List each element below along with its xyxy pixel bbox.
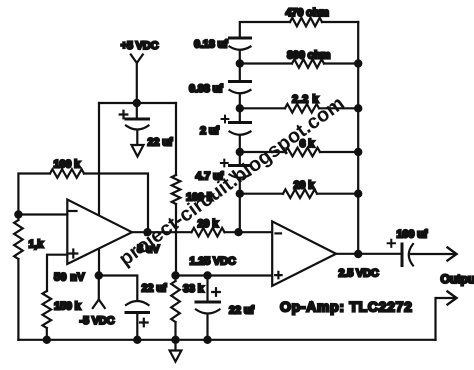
wire bus return to output with arrow	[436, 298, 456, 340]
wire ladder row3	[240, 107, 358, 109]
svg-text:100 k: 100 k	[54, 159, 82, 171]
resistor 800 ohm	[287, 50, 331, 68]
wire +5V to R bias	[175, 103, 177, 175]
svg-text:100 k: 100 k	[186, 192, 214, 204]
node U2 output junction	[354, 250, 362, 258]
wire U1 non-inverting input	[47, 255, 67, 291]
svg-text:50 nV: 50 nV	[54, 272, 85, 284]
resistor 20 k (series)	[192, 218, 225, 237]
node V- rail junction	[95, 271, 103, 279]
op-amp U1	[67, 200, 132, 265]
node U2 inverting junction	[234, 228, 242, 236]
resistor 20 k (ladder)	[283, 180, 317, 199]
svg-text:33 k: 33 k	[183, 283, 205, 295]
svg-text:2.2 k: 2.2 k	[292, 94, 319, 106]
capacitor 4.7 uf	[196, 152, 251, 194]
node ladder right row4	[354, 148, 362, 156]
wire bias rail to 1.25V node	[175, 204, 177, 276]
resistor 100 k (bias upper)	[172, 175, 214, 204]
svg-text:Op-Amp: TLC2272: Op-Amp: TLC2272	[280, 299, 413, 315]
svg-text:2 uf: 2 uf	[200, 125, 219, 137]
wire output (AC coupled) with arrow	[411, 253, 455, 255]
capacitor 100 uf output coupling	[388, 229, 428, 266]
resistor 100 k (feedback)	[50, 159, 84, 178]
svg-text:22 uf: 22 uf	[229, 305, 254, 317]
svg-text:22 uf: 22 uf	[148, 137, 173, 149]
svg-text:0.88 uf: 0.88 uf	[189, 83, 223, 95]
svg-text:470 ohm: 470 ohm	[286, 7, 330, 19]
node A inverting input junction	[14, 210, 22, 218]
resistor 33 k	[171, 276, 204, 340]
node +5V rail junction	[133, 99, 141, 107]
wire to U2 inverting input	[225, 231, 273, 233]
node ladder right row3	[354, 104, 362, 112]
wire ladder row5	[240, 193, 358, 195]
wire ladder rail to U2 input	[239, 194, 241, 233]
resistor 1 k input	[14, 215, 44, 340]
node ladder right row5	[354, 190, 362, 198]
node bus / 150k	[43, 336, 51, 344]
svg-text:20 k: 20 k	[198, 218, 220, 230]
svg-text:6 k: 6 k	[300, 138, 316, 150]
capacitor 0.18 uf	[194, 38, 251, 64]
svg-text:100 uf: 100 uf	[397, 229, 428, 241]
wire ladder row2	[240, 62, 358, 64]
svg-text:1,k: 1,k	[29, 239, 45, 251]
node bus / C5	[203, 336, 211, 344]
resistor 150 k	[43, 291, 82, 340]
node ladder left row2	[236, 59, 244, 67]
svg-text:-5 VDC: -5 VDC	[80, 315, 115, 327]
resistor 470 ohm	[286, 7, 330, 26]
svg-text:150 k: 150 k	[54, 301, 82, 313]
resistor 2.2 k	[285, 94, 319, 113]
wire ladder top row	[240, 22, 358, 38]
node bus / C2	[133, 336, 141, 344]
ground (C1 bypass)	[132, 145, 144, 157]
capacitor 2 uf	[200, 108, 251, 152]
capacitor C2 22 uf (-5V bypass)	[99, 276, 167, 340]
node bus / 33k ground	[171, 336, 179, 344]
ground (main)	[170, 340, 182, 362]
wire U1 output	[132, 231, 192, 233]
wire feedback (node A up, across, down to U1 output)	[18, 174, 148, 233]
node ladder right row2	[354, 59, 362, 67]
node 1.25 VDC bias	[171, 271, 179, 279]
wire 1.25V node to U2 non-inverting input	[176, 274, 273, 276]
-5 VDC supply terminal	[80, 276, 115, 328]
wire U2 output	[336, 253, 402, 255]
wire left supply rail	[98, 103, 100, 276]
svg-text:0.18 uf: 0.18 uf	[194, 39, 228, 51]
capacitor 0.88 uf	[189, 64, 251, 109]
svg-text:20 k: 20 k	[294, 180, 316, 192]
wire bottom bus	[18, 339, 435, 341]
node U1 output junction	[143, 228, 151, 236]
capacitor C5 22 uf (bias bypass)	[196, 271, 254, 340]
+5 VDC supply terminal	[121, 40, 159, 103]
svg-text:800 ohm: 800 ohm	[287, 50, 331, 62]
wire U1 inverting input	[18, 213, 67, 215]
wire ladder right rail	[357, 22, 359, 254]
svg-text:+5 VDC: +5 VDC	[121, 40, 159, 52]
svg-text:1.25 VDC: 1.25 VDC	[190, 256, 236, 268]
svg-text:5 uV: 5 uV	[137, 244, 160, 256]
op-amp U2	[272, 221, 336, 286]
wire ladder row4	[240, 151, 358, 153]
svg-text:Output: Output	[441, 272, 474, 286]
resistor 6 k	[285, 138, 320, 156]
capacitor C1 22 uf (+5V bypass)	[120, 103, 173, 149]
node ladder left row5	[236, 190, 244, 198]
svg-text:2.5 VDC: 2.5 VDC	[339, 268, 379, 280]
wire +5V horizontal rail	[99, 102, 176, 104]
node ladder left row4	[236, 148, 244, 156]
svg-text:4.7 uf: 4.7 uf	[196, 171, 224, 183]
svg-text:22 uf: 22 uf	[142, 283, 167, 295]
node ladder left row3	[236, 104, 244, 112]
